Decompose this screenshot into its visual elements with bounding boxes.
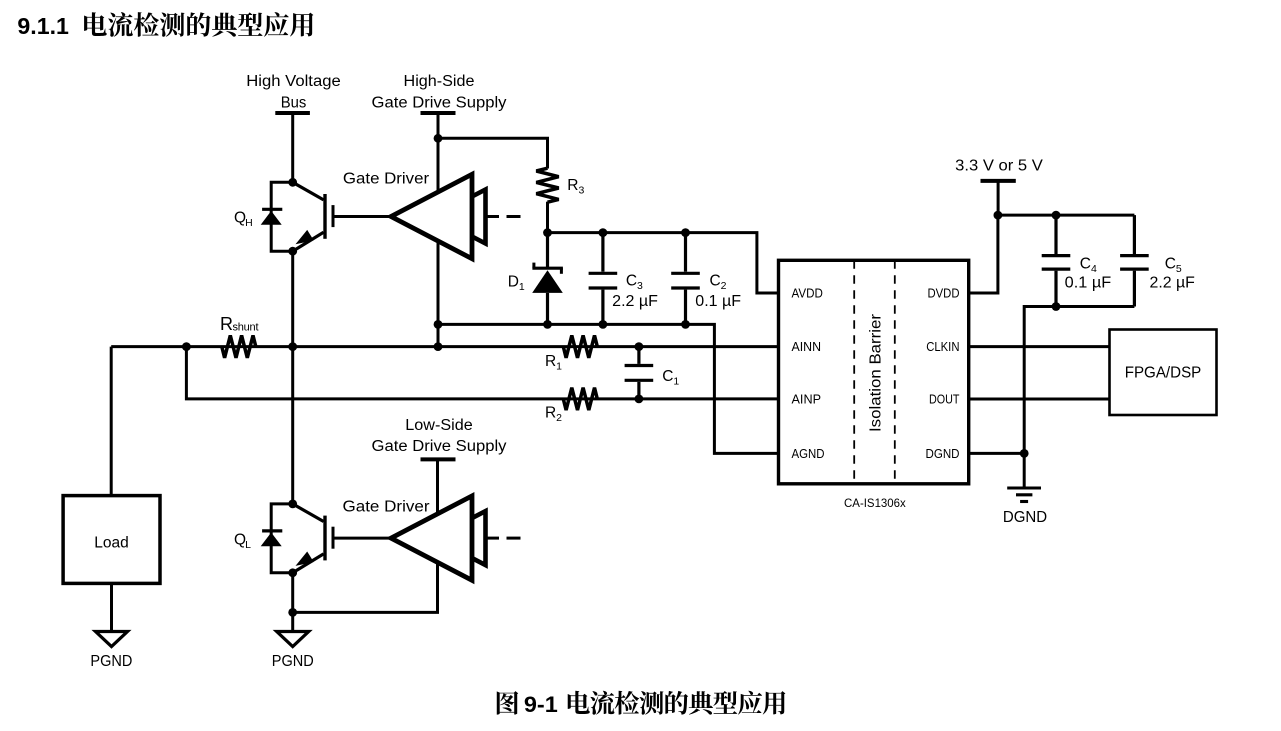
wire QH gate [335, 215, 392, 218]
svg-text:4: 4 [1091, 263, 1097, 275]
isolation barrier dashed line left [853, 260, 855, 484]
svg-text:3: 3 [637, 280, 643, 292]
node label Low-Side Gate Drive Supply [372, 417, 507, 455]
junction C3 bottom [599, 320, 608, 329]
svg-text:1: 1 [519, 281, 525, 293]
junction QL emitter/PGND node [288, 608, 297, 617]
resistor R2 [563, 388, 597, 410]
svg-text:CA-IS1306x: CA-IS1306x [844, 496, 906, 510]
wire AVDD rail (R3 node to AVDD pin) [548, 233, 779, 293]
power rail bar Low-Side Gate Drive Supply [421, 457, 456, 461]
svg-text:0.1 µF: 0.1 µF [1065, 274, 1112, 291]
resistor R3 [536, 168, 558, 202]
svg-text:C: C [626, 273, 637, 290]
ground DGND symbol [1007, 488, 1041, 502]
svg-text:Gate Driver: Gate Driver [343, 170, 429, 187]
junction QH emitter on shunt line [288, 342, 297, 351]
junction C1 top [635, 342, 644, 351]
svg-text:CLKIN: CLKIN [926, 339, 959, 354]
wire QL emitter to PGND node [291, 573, 294, 613]
power rail bar High Voltage Bus [275, 111, 310, 115]
op-amp gate driver low-side [434, 511, 486, 565]
svg-text:9.1.1: 9.1.1 [17, 13, 69, 39]
label C5 2.2 uF [1150, 255, 1195, 291]
wire AGND rail (driver return to AGND pin) [438, 324, 779, 453]
svg-text:5: 5 [1176, 263, 1182, 275]
svg-text:DGND: DGND [1003, 509, 1047, 526]
junction C2 bottom [681, 320, 690, 329]
svg-text:1: 1 [556, 361, 562, 373]
node label High-Side Gate Drive Supply [372, 73, 507, 112]
svg-text:9-1: 9-1 [524, 692, 558, 717]
label C2 0.1 uF [695, 273, 741, 310]
wire low-side supply vertical (driver rail) [293, 459, 438, 612]
capacitor C5 [1120, 215, 1149, 306]
transistor QL (IGBT with freewheel diode) [271, 504, 293, 573]
label Rshunt [220, 314, 259, 334]
svg-text:D: D [508, 274, 519, 291]
capacitor C1 [625, 347, 654, 399]
junction driver rail on shunt line [434, 342, 443, 351]
svg-text:AINP: AINP [792, 392, 822, 407]
junction driver return [434, 320, 443, 329]
svg-text:Bus: Bus [281, 95, 307, 112]
svg-text:High Voltage: High Voltage [246, 73, 341, 90]
svg-text:shunt: shunt [233, 322, 259, 334]
transistor QH (IGBT with freewheel diode) [271, 182, 293, 251]
label C3 2.2 uF [612, 273, 658, 310]
junction R3/D1 node [543, 228, 552, 237]
capacitor C2 [671, 233, 700, 325]
wire DGND pin to ground [969, 452, 1024, 455]
svg-text:3.3 V or 5 V: 3.3 V or 5 V [955, 158, 1043, 175]
wire bus to QH collector [291, 113, 294, 182]
svg-text:H: H [245, 217, 253, 229]
IC U1 CA-IS1306x body [779, 260, 969, 484]
resistor R1 [563, 335, 597, 357]
svg-text:DOUT: DOUT [929, 392, 960, 407]
junction 3.3V node [994, 211, 1003, 220]
power rail bar High-Side Gate Drive Supply [421, 111, 456, 115]
wire QL gate [335, 537, 392, 540]
label C4 0.1 uF [1065, 255, 1112, 291]
wire supply to node [437, 113, 440, 138]
wire QH emitter to shunt line [291, 251, 294, 346]
svg-text:2: 2 [556, 412, 562, 424]
junction DGND node [1020, 449, 1029, 458]
wire 3.3V bar to node [997, 181, 1000, 215]
svg-text:C: C [1080, 255, 1091, 272]
svg-text:DGND: DGND [926, 446, 960, 461]
wire Load to PGND [110, 583, 113, 631]
ground PGND (load) [96, 632, 128, 647]
isolation barrier dashed line right [894, 260, 896, 484]
svg-text:AGND: AGND [792, 446, 825, 461]
wire CLKIN to FPGA [969, 345, 1110, 348]
svg-text:2: 2 [721, 280, 727, 292]
wire node to PGND symbol [291, 612, 294, 631]
svg-text:Low-Side: Low-Side [405, 417, 472, 434]
svg-text:3: 3 [578, 185, 584, 197]
junction C3 top [599, 228, 608, 237]
svg-text:0.1 µF: 0.1 µF [695, 293, 741, 310]
wire shunt line to QL collector [291, 347, 294, 504]
svg-text:C: C [1165, 255, 1176, 272]
svg-text:Gate Drive Supply: Gate Drive Supply [372, 438, 507, 455]
svg-text:R: R [545, 353, 556, 370]
svg-text:Gate Drive Supply: Gate Drive Supply [372, 94, 507, 111]
svg-text:Load: Load [94, 534, 129, 551]
wire supply node to R3 [438, 138, 548, 168]
wire high-side supply vertical (driver rail) [437, 138, 440, 346]
wire DOUT to FPGA [969, 398, 1110, 401]
svg-text:Gate Driver: Gate Driver [343, 498, 430, 515]
op-amp U? gate driver high-side [434, 190, 486, 244]
node label High Voltage Bus [246, 73, 341, 112]
svg-text:PGND: PGND [272, 653, 314, 670]
figure caption 9-1 [497, 691, 786, 717]
svg-text:PGND: PGND [90, 653, 132, 670]
wire shunt line to Load [110, 347, 113, 496]
block FPGA/DSP [1110, 330, 1217, 416]
junction shunt left node [182, 342, 191, 351]
wire shunt/AINN line [111, 345, 778, 348]
svg-text:C: C [662, 368, 673, 385]
capacitor C3 [589, 233, 618, 325]
wire AINP line [186, 347, 778, 399]
junction D1 anode [543, 320, 552, 329]
svg-text:2.2 µF: 2.2 µF [1150, 274, 1195, 291]
svg-text:R: R [545, 404, 556, 421]
block Load [63, 496, 160, 584]
ground PGND (QL) [277, 632, 309, 647]
resistor Rshunt [222, 335, 256, 357]
wire supply node to C5 top [998, 214, 1135, 217]
diode D1 (zener) [532, 233, 563, 325]
junction C4 bottom [1052, 302, 1061, 311]
junction C1 bottom [635, 395, 644, 404]
svg-text:R: R [220, 314, 233, 334]
svg-text:R: R [567, 177, 578, 194]
wire R3 to AVDD node [546, 202, 549, 233]
section heading 9.1.1 [17, 12, 313, 39]
wire DVDD feed [969, 215, 998, 293]
svg-text:AVDD: AVDD [792, 286, 823, 301]
svg-text:1: 1 [673, 375, 679, 387]
wire C4/C5 bottom to DGND [1024, 307, 1134, 454]
svg-text:DVDD: DVDD [928, 286, 960, 301]
svg-text:L: L [245, 539, 251, 551]
wire DGND node to ground symbol [1023, 453, 1026, 486]
power rail bar 3.3V/5V [981, 179, 1016, 183]
svg-text:High-Side: High-Side [404, 73, 475, 90]
svg-text:FPGA/DSP: FPGA/DSP [1125, 365, 1202, 382]
junction high-side supply node [434, 134, 443, 143]
capacitor C4 [1042, 215, 1071, 306]
svg-text:C: C [710, 273, 721, 290]
svg-text:Isolation Barrier: Isolation Barrier [868, 313, 885, 432]
svg-text:2.2 µF: 2.2 µF [612, 293, 658, 310]
junction C2 top [681, 228, 690, 237]
svg-text:AINN: AINN [792, 339, 822, 354]
junction C4 top [1052, 211, 1061, 220]
